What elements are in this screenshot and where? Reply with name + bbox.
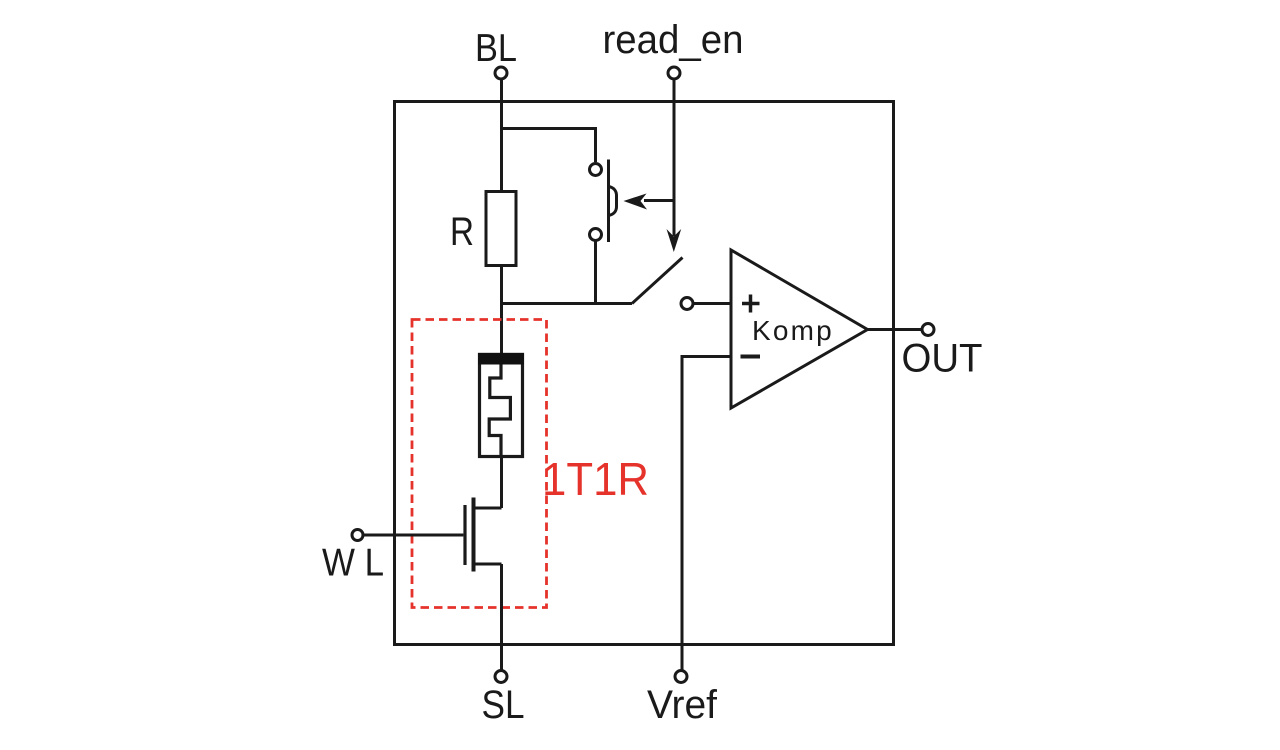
wire node row to op-amp — [502, 302, 633, 305]
memristor top electrode bar — [478, 353, 524, 365]
switch upper contact — [590, 164, 602, 176]
wire lower contact down — [594, 242, 597, 304]
wire resistor to memristor — [500, 266, 503, 355]
wire source to SL — [500, 564, 503, 670]
arrowhead down to blade — [667, 229, 682, 252]
minus sign — [741, 355, 761, 359]
wire plus input — [694, 302, 732, 305]
transistor gate bar — [463, 505, 466, 565]
wire minus input from Vref — [682, 357, 731, 671]
switch actuator bump — [609, 187, 617, 216]
wire BL vertical — [500, 80, 503, 192]
plus sign — [742, 295, 760, 313]
wire op-amp output — [868, 328, 923, 331]
switch blade — [632, 258, 683, 304]
svg-text:R: R — [450, 210, 474, 254]
resistor R — [486, 192, 516, 266]
svg-text:OUT: OUT — [902, 337, 983, 381]
svg-text:read_en: read_en — [603, 18, 744, 62]
svg-text:W L: W L — [322, 542, 384, 585]
terminal SL — [495, 671, 507, 683]
svg-text:Komp: Komp — [752, 315, 834, 346]
terminal OUT — [922, 324, 934, 336]
transistor channel bar — [472, 498, 476, 572]
transistor drain lead — [474, 507, 502, 510]
switch bar S1 — [607, 160, 610, 243]
arrowhead left to switch — [624, 194, 648, 210]
memristor meander — [489, 365, 510, 458]
svg-text:1T1R: 1T1R — [542, 453, 649, 505]
red dashed box 1T1R — [412, 320, 547, 608]
terminal read_en — [668, 67, 680, 79]
svg-text:SL: SL — [482, 683, 525, 727]
wire memristor to transistor drain — [500, 457, 503, 508]
terminal WL — [352, 530, 363, 541]
transistor source lead — [474, 563, 502, 566]
wire branch to switch contact — [502, 129, 596, 163]
svg-text:Vref: Vref — [647, 683, 718, 727]
svg-text:BL: BL — [475, 27, 517, 70]
memristor body — [480, 355, 523, 457]
enclosure box — [395, 102, 894, 645]
op-amp U1 triangle — [731, 250, 868, 408]
terminal BL — [495, 67, 507, 79]
terminal Vref — [675, 671, 687, 683]
op-amp plus input terminal — [681, 298, 693, 310]
switch lower contact — [590, 229, 602, 241]
wire control arrow horizontal — [644, 199, 674, 202]
wire gate from WL — [363, 534, 463, 537]
wire read_en vertical — [673, 80, 676, 237]
